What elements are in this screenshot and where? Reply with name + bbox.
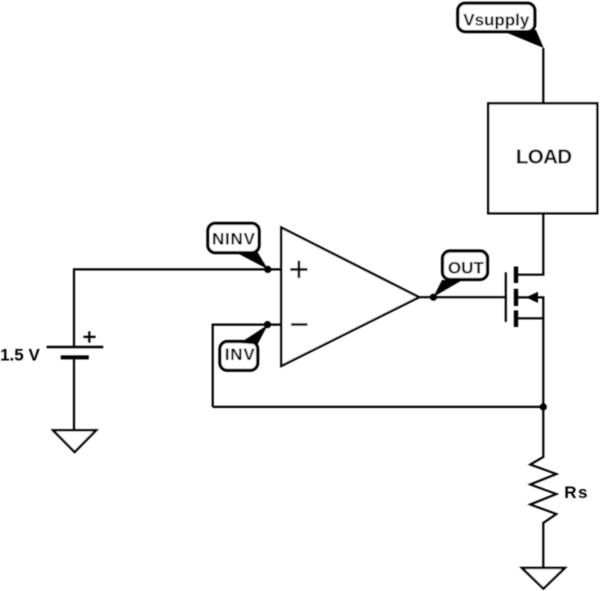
node OUT dot	[430, 294, 437, 301]
op-amp U1 body	[281, 228, 419, 366]
MOSFET body arrow	[526, 292, 538, 303]
battery plus sign	[83, 331, 95, 342]
ground (battery)	[53, 430, 96, 452]
NINV tail	[235, 252, 268, 269]
svg-text:LOAD: LOAD	[516, 146, 572, 169]
MOSFET drain connection	[518, 213, 543, 274]
node NINV dot	[264, 266, 271, 273]
svg-text:Rs: Rs	[564, 483, 587, 502]
resistor Rs	[530, 407, 556, 568]
MOSFET body connection	[518, 297, 543, 318]
INV net label	[220, 342, 258, 371]
NINV net label	[208, 223, 259, 252]
svg-text:1.5 V: 1.5 V	[0, 346, 40, 365]
MOSFET channel bar top	[514, 267, 518, 284]
svg-text:Vsupply: Vsupply	[463, 11, 530, 30]
battery V1 bottom plate	[61, 355, 89, 359]
OUT net label	[443, 251, 488, 280]
INV tail	[240, 325, 268, 345]
wire Vsupply to LOAD	[542, 48, 544, 103]
node INV dot	[264, 321, 271, 328]
wire battery to ground	[73, 357, 75, 430]
wire inverting input	[213, 325, 282, 407]
svg-text:INV: INV	[225, 345, 256, 364]
MOSFET M1 gate line	[505, 272, 507, 322]
ground (Rs)	[522, 568, 565, 589]
wire battery to op-amp noninverting input	[74, 269, 281, 347]
MOSFET channel bar middle	[514, 289, 518, 306]
LOAD box	[488, 103, 597, 213]
op-amp plus symbol	[290, 261, 307, 278]
wire op-amp output to MOSFET gate	[419, 296, 506, 298]
Vsupply tail	[500, 30, 544, 48]
node source junction dot	[540, 403, 547, 410]
svg-text:OUT: OUT	[448, 258, 485, 277]
OUT tail	[433, 280, 462, 297]
MOSFET channel bar bottom	[514, 310, 518, 327]
Vsupply net label	[458, 3, 535, 31]
battery V1 top plate	[47, 346, 104, 349]
op-amp minus symbol	[291, 323, 308, 326]
MOSFET source connection	[518, 318, 543, 407]
wire feedback (source node to inverting input)	[213, 406, 544, 408]
svg-text:NINV: NINV	[212, 230, 256, 249]
